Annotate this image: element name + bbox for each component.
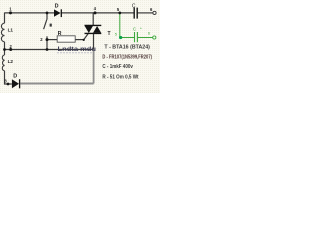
svg-text:L2: L2: [8, 59, 14, 64]
svg-text:C - 1mkF 400v: C - 1mkF 400v: [102, 64, 133, 70]
svg-text:R - 51 Om 0,5 Wt: R - 51 Om 0,5 Wt: [102, 74, 138, 80]
svg-text:R: R: [58, 31, 62, 37]
svg-text:D: D: [55, 3, 59, 9]
svg-text:L1: L1: [8, 27, 14, 32]
svg-text:Lndta mdu: Lndta mdu: [58, 46, 97, 53]
svg-text:T - BTA16 (BTA24): T - BTA16 (BTA24): [104, 44, 150, 50]
svg-text:D: D: [13, 73, 17, 79]
svg-text:T: T: [108, 31, 111, 37]
svg-text:D - FR107(1N5399,FR207): D - FR107(1N5399,FR207): [102, 54, 152, 60]
svg-text:C: C: [132, 4, 136, 10]
